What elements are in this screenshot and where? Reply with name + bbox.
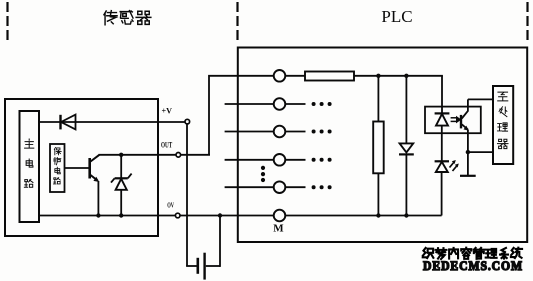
svg-text:PLC: PLC bbox=[381, 7, 412, 26]
terminal M bbox=[274, 210, 286, 222]
wire row1 resistor to opto bbox=[354, 75, 443, 77]
input terminal X2 bbox=[274, 126, 286, 138]
protection-circuit block 保护电路 bbox=[50, 144, 65, 192]
node: D3 bottom junction bbox=[404, 213, 408, 217]
wire battery left lead bbox=[186, 265, 197, 267]
input terminal X3 bbox=[274, 154, 286, 166]
light arrow bbox=[451, 116, 462, 124]
label 传感器 (sensor) bbox=[104, 11, 151, 25]
continuation dots row2 bbox=[312, 102, 332, 106]
resistor R1 (series input) bbox=[305, 72, 354, 81]
node: zener top junction bbox=[119, 153, 123, 157]
node: D3 top junction bbox=[404, 74, 408, 78]
wire emitter branch to processor box bbox=[468, 151, 493, 153]
svg-text:OUT: OUT bbox=[161, 141, 173, 150]
wire R2 upper lead bbox=[377, 76, 379, 122]
wire +V rail (main circuit to +V terminal) bbox=[39, 121, 185, 123]
node: zener bottom junction bbox=[119, 213, 123, 217]
wire D3 lower lead bbox=[405, 154, 407, 215]
svg-text:+V: +V bbox=[162, 107, 173, 116]
wire OUT terminal to riser bbox=[180, 154, 210, 156]
phototransistor Q2 bbox=[461, 99, 469, 130]
terminal OUT bbox=[176, 153, 181, 158]
wire emitter to 0V rail bbox=[97, 181, 99, 216]
emission arrows of D5 bbox=[450, 160, 459, 171]
continuation dots row5 bbox=[312, 185, 332, 189]
wire base (protection circuit to Q1 base) bbox=[65, 167, 89, 169]
wire row2 right bbox=[285, 103, 305, 105]
optocoupler U1 box bbox=[425, 107, 481, 134]
wire stub row4 bbox=[225, 159, 274, 161]
node: R2 top junction bbox=[376, 74, 380, 78]
processor block 至处理器 bbox=[493, 86, 513, 164]
wire stub row2 bbox=[225, 103, 274, 105]
wire row4 right bbox=[285, 159, 305, 161]
boundary dashed line left bbox=[6, 2, 8, 40]
wire Q2 collector to processor box bbox=[468, 98, 493, 100]
wire OV terminal to M terminal bbox=[180, 215, 274, 217]
sensor enclosure box bbox=[5, 99, 158, 236]
opto LED D4 bbox=[435, 76, 450, 126]
vertical ellipsis dots between row4 and row5 bbox=[261, 166, 265, 182]
wire OUT riser to PLC row1 bbox=[209, 76, 274, 155]
indicator LED D5 bbox=[435, 126, 449, 172]
wire stub row3 bbox=[225, 131, 274, 133]
wire battery right lead bbox=[206, 265, 220, 267]
boundary dashed line right bbox=[526, 2, 528, 40]
wire battery to 0V rail bbox=[219, 216, 221, 267]
svg-text:DEDECMS.COM: DEDECMS.COM bbox=[423, 258, 523, 273]
zener diode D2 bbox=[111, 155, 132, 216]
wire OUT (collector node to OUT terminal) bbox=[99, 154, 177, 156]
watermark 织梦内容管理系统 bbox=[423, 248, 522, 259]
node: emitter junction bbox=[466, 150, 470, 154]
wire LED branch riser bbox=[441, 172, 443, 216]
terminal +V bbox=[185, 119, 190, 124]
continuation dots row4 bbox=[312, 158, 332, 162]
node: emitter junction bbox=[96, 213, 100, 217]
PLC enclosure box bbox=[238, 48, 527, 243]
wire row5 right bbox=[285, 186, 305, 188]
transistor Q1 (NPN output) bbox=[90, 155, 100, 182]
wire 0V rail bbox=[39, 215, 176, 217]
input terminal X1 bbox=[274, 98, 286, 110]
input terminal X0 bbox=[274, 70, 286, 82]
wire +V drop to battery bbox=[186, 124, 188, 266]
wire stub row5 bbox=[225, 186, 274, 188]
node: R2 bottom junction bbox=[376, 213, 380, 217]
continuation dots row3 bbox=[312, 130, 332, 134]
diode D1 (reverse-polarity protection) bbox=[61, 115, 76, 130]
ground bbox=[460, 175, 476, 177]
terminal OV bbox=[175, 213, 180, 218]
resistor R2 (input impedance) bbox=[373, 122, 384, 174]
wire M rail to LED branch bbox=[285, 215, 441, 217]
wire Q2 emitter down bbox=[467, 130, 469, 176]
wire R2 lower lead bbox=[377, 173, 379, 215]
input terminal X4 bbox=[274, 181, 286, 193]
wire D3 upper lead bbox=[405, 76, 407, 144]
svg-text:OV: OV bbox=[167, 201, 174, 210]
wire row1 to resistor bbox=[285, 75, 305, 77]
battery BT1 bbox=[198, 253, 205, 280]
main-circuit block 主电路 bbox=[20, 111, 40, 222]
diode D3 (clamp) bbox=[399, 143, 414, 154]
node: battery/0V junction bbox=[218, 213, 222, 217]
boundary dashed line middle bbox=[236, 2, 238, 40]
wire row3 right bbox=[285, 131, 305, 133]
svg-text:M: M bbox=[273, 223, 284, 235]
